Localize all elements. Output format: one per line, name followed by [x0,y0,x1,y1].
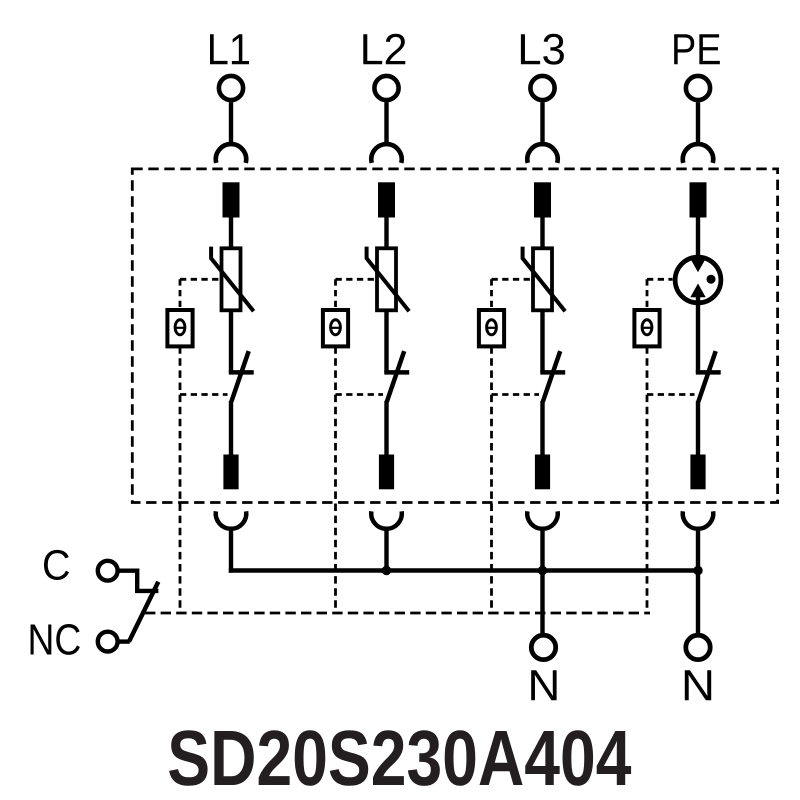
plug-in socket arc column 4 [683,511,714,528]
wire L1 terminal to plug contact [229,102,233,144]
terminal NC [98,632,118,652]
node NC label [31,624,80,655]
lower terminal block column 2 [379,455,394,490]
dashed link theta2 vertical upper [334,279,337,309]
upper terminal block column 3 [534,182,551,217]
plug-in contact arc (L2 side) [371,144,401,163]
plug-in socket arc column 2 [371,511,402,528]
node L2 label [363,34,405,64]
terminal N (left) [531,635,555,659]
wire to switch S3 [540,311,544,373]
wire to switch S4 [696,294,700,372]
terminal PE [686,76,710,100]
terminal L1 [219,76,243,100]
wire switch S2 to lower terminal block [384,401,388,456]
thermal disconnect sensor theta4 [634,310,659,346]
remote signalling switch blade K1 [129,582,158,642]
wire switch S3 to lower terminal block [540,401,544,456]
varistor RV2 [367,247,410,312]
gas discharge tube GDT1 [675,257,721,303]
dashed link theta2 vertical to signalling [334,346,337,613]
dashed link theta4 vertical upper [646,279,649,309]
disconnect switch S4 [696,351,721,402]
upper terminal block column 4 [690,182,707,217]
junction node PE/rail [693,566,702,575]
wire switch S1 to lower terminal block [229,401,233,456]
wire socket L3 to terminal N (left) [540,528,544,633]
junction node L3/rail [538,566,547,575]
dashed link theta3 vertical to signalling [490,346,493,613]
lower terminal block column 4 [690,455,705,490]
wire switch S4 to lower terminal block [696,401,700,456]
wire terminal block to gas discharge tube [696,218,700,264]
wire socket PE to terminal N (right) [696,528,700,633]
wire socket L2 to common rail [384,528,388,571]
disconnect switch S1 [229,351,254,402]
wire C terminal to fixed contact [118,571,159,591]
dashed link theta1 vertical upper [179,279,182,309]
disconnect switch S3 [540,351,565,402]
varistor RV1 [211,247,254,312]
terminal C [98,561,118,581]
node C label [44,550,69,580]
dashed link theta4 to protector [647,278,673,281]
dashed link theta3 vertical upper [490,279,493,309]
varistor RV3 [523,247,566,312]
dashed link theta3 to switch S3 [492,393,540,396]
terminal N (right) [686,635,710,659]
dashed link theta2 to protector [336,278,376,281]
plug-in contact arc (L1 side) [216,144,246,163]
dashed link theta2 to switch S2 [336,393,384,396]
terminal L3 [530,76,554,100]
dashed mechanical link to signalling switch [145,612,650,615]
dashed link theta1 to protector [180,278,220,281]
SPD enclosure dashed outline [132,169,777,503]
plug-in socket arc column 3 [527,511,558,528]
disconnect switch S2 [384,351,409,402]
plug-in socket arc column 1 [216,511,247,528]
lower terminal block column 1 [223,455,238,490]
dashed link theta1 to switch S1 [180,393,228,396]
wire terminal block to varistor RV1 [229,218,233,251]
upper terminal block column 1 [223,182,240,217]
plug-in contact arc (PE side) [683,144,713,163]
lower terminal block column 3 [535,455,550,490]
wire to switch S1 [229,311,233,373]
node L1 label [210,34,249,64]
dashed link theta4 vertical to signalling [646,346,649,613]
plug-in contact arc (L3 side) [527,144,557,163]
node N label (right) [685,670,711,700]
thermal disconnect sensor theta1 [167,310,192,346]
node PE label [674,34,720,64]
node N label (left) [531,670,556,700]
dashed link theta3 to protector [492,278,532,281]
wire terminal block to varistor RV3 [540,218,544,251]
wire to switch S2 [384,311,388,373]
dashed link theta4 to switch S4 [647,393,695,396]
wire PE terminal to plug contact [696,102,700,144]
wire L2 terminal to plug contact [384,102,388,144]
thermal disconnect sensor theta3 [479,310,504,346]
thermal disconnect sensor theta2 [323,310,348,346]
title SD20S230A404 [169,730,631,786]
wire terminal block to varistor RV2 [384,218,388,251]
wire L3 terminal to plug contact [540,102,544,144]
terminal L2 [374,76,398,100]
wire socket L1 to common rail [229,528,233,573]
dashed link theta1 vertical to signalling [179,346,182,613]
node L3 label [521,34,564,65]
wire NC terminal to blade [118,639,130,643]
junction node L2/rail [382,566,391,575]
common rail wire [229,568,698,572]
upper terminal block column 2 [378,182,395,217]
